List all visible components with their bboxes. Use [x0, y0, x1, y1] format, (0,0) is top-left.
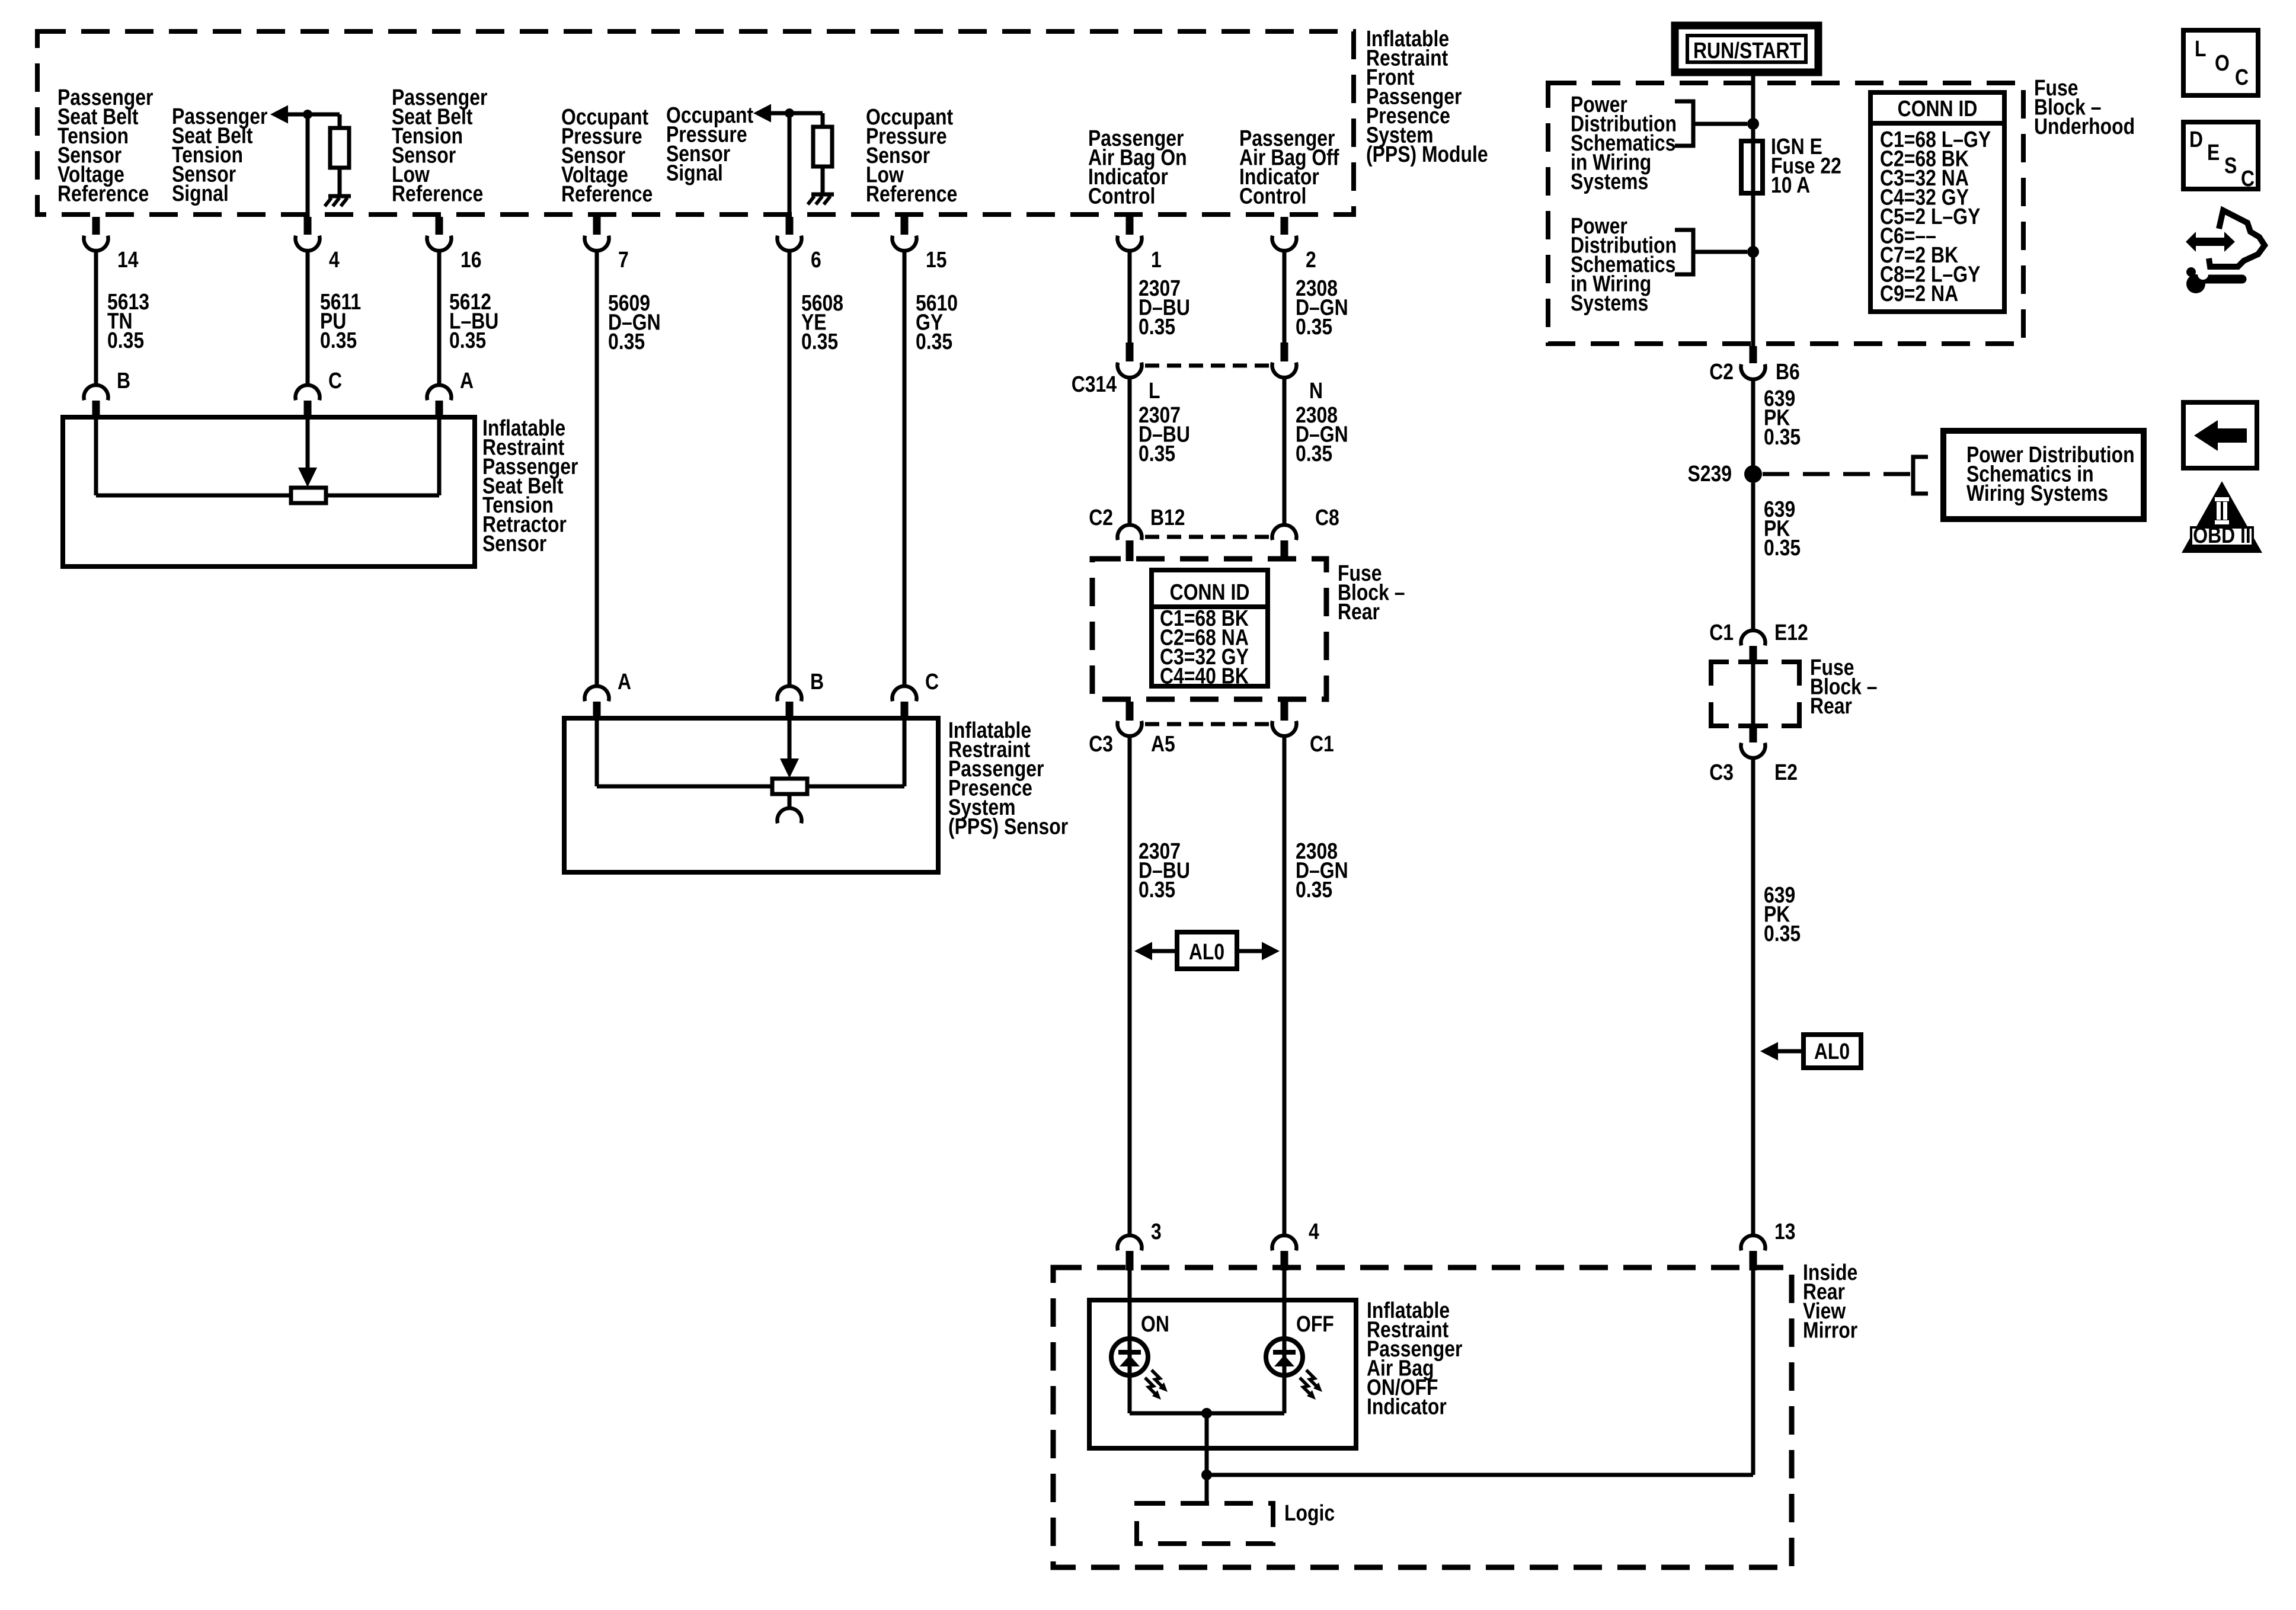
svg-text:4: 4 [1309, 1219, 1319, 1244]
svg-text:L: L [1149, 378, 1160, 403]
wire R1 to ground [338, 168, 342, 196]
module pin 1 connector [1126, 217, 1134, 235]
svg-text:O: O [2215, 50, 2230, 75]
svg-text:0.35: 0.35 [1296, 877, 1332, 902]
OBD II icon [2182, 481, 2262, 553]
connector C1/E12 into fuse block rear (right) [1741, 630, 1766, 645]
retractor wiper arrow wire [306, 417, 310, 468]
svg-text:2: 2 [1306, 247, 1316, 272]
fuse block rear dashed box [1092, 559, 1326, 699]
svg-text:S: S [2224, 153, 2237, 178]
wire junction to resistor R1 [338, 114, 342, 128]
bracket upper (power distribution) [1675, 101, 1693, 146]
svg-text:C1: C1 [1709, 620, 1734, 645]
svg-text:C3: C3 [1709, 760, 1734, 785]
junction dot [303, 110, 312, 119]
module pin 7 connector [593, 217, 601, 235]
svg-text:B6: B6 [1776, 359, 1800, 384]
svg-text:B12: B12 [1150, 505, 1185, 530]
svg-text:CONN ID: CONN ID [1170, 580, 1250, 604]
svg-text:C4=40 BK: C4=40 BK [1160, 664, 1249, 689]
svg-text:16: 16 [461, 247, 482, 272]
PPS internal wire C [903, 718, 907, 786]
wire pin4 to OFF LED [1283, 1270, 1287, 1413]
svg-text:10 A: 10 A [1771, 172, 1810, 197]
connector A into retractor [427, 385, 452, 400]
svg-text:Mirror: Mirror [1803, 1318, 1858, 1343]
svg-text:Reference: Reference [866, 181, 957, 206]
wire signal down from junction (pin 6) [788, 113, 792, 217]
potentiometer element (PPS) [772, 779, 807, 794]
junction dot upper [1747, 118, 1759, 130]
connector C314 left half [1126, 343, 1134, 361]
resistor R2 [813, 127, 832, 167]
svg-text:B: B [117, 368, 130, 393]
wire 5613 TN [94, 251, 98, 384]
fuse block rear mini dashed box [1711, 662, 1729, 686]
svg-text:0.35: 0.35 [1296, 314, 1332, 339]
svg-text:C: C [2235, 65, 2249, 89]
wire through fuse block rear mini [1751, 664, 1755, 728]
svg-text:Systems: Systems [1571, 169, 1648, 194]
svg-text:0.35: 0.35 [608, 329, 645, 354]
AL0 takeout symbol [1177, 932, 1237, 969]
retractor internal wire A [437, 417, 442, 495]
svg-text:Signal: Signal [666, 161, 723, 185]
wire 5611 PU [306, 251, 310, 384]
C314 dashed connector line [1145, 364, 1269, 368]
svg-text:6: 6 [811, 247, 821, 272]
svg-text:D: D [2189, 127, 2203, 152]
connector B into PPS sensor [778, 686, 802, 701]
svg-text:Control: Control [1239, 184, 1306, 209]
svg-text:(PPS) Module: (PPS) Module [1366, 142, 1488, 167]
svg-text:3: 3 [1151, 1219, 1162, 1244]
wire junction to resistor R2 [821, 113, 825, 127]
DESC icon [2183, 122, 2258, 189]
svg-text:Control: Control [1088, 184, 1155, 209]
svg-text:C3: C3 [1089, 731, 1113, 756]
svg-text:13: 13 [1774, 1219, 1796, 1244]
connector C3/E2 out of fuse block rear (right) [1750, 728, 1757, 742]
svg-text:E2: E2 [1774, 760, 1798, 785]
diagnostic icon (arrow, outline, wrench) [2186, 232, 2235, 252]
wire signal down from junction (pin 4) [306, 114, 310, 217]
svg-text:CONN ID: CONN ID [1898, 96, 1978, 121]
wire 2308 pin2 to C314 [1283, 251, 1287, 343]
wire 5610 GY [903, 251, 907, 685]
wire 639 PK mid [1751, 483, 1755, 629]
junction dot lower [1201, 1470, 1212, 1480]
svg-text:0.35: 0.35 [1764, 424, 1801, 449]
connector pin 13 into mirror [1741, 1235, 1766, 1250]
svg-text:OBD II: OBD II [2193, 523, 2250, 548]
module pin 14 connector [92, 217, 100, 235]
splice S239 [1744, 465, 1762, 483]
svg-text:C2: C2 [1089, 505, 1113, 530]
svg-text:L: L [2195, 36, 2206, 61]
wire 2307 C314 to fuse block [1128, 379, 1132, 523]
svg-text:A: A [618, 669, 631, 694]
svg-text:E12: E12 [1774, 620, 1808, 645]
wire pin3 to ON LED [1128, 1270, 1132, 1413]
module pin 4 connector [304, 217, 312, 235]
svg-text:B: B [810, 669, 824, 694]
wire 2307 pin1 to C314 [1128, 251, 1132, 343]
svg-text:Wiring Systems: Wiring Systems [1966, 481, 2108, 505]
svg-text:(PPS) Sensor: (PPS) Sensor [948, 814, 1068, 839]
CONN ID table (rear) [1152, 570, 1268, 686]
wire 2308 C314 to fuse block [1283, 379, 1287, 523]
module pin 16 connector [436, 217, 443, 235]
svg-text:N: N [1309, 378, 1323, 403]
module pin 15 connector [901, 217, 909, 235]
svg-text:OFF: OFF [1296, 1311, 1334, 1336]
wire junction to logic [1205, 1475, 1209, 1503]
connector C2/B6 out of fuse block underhood [1750, 346, 1757, 363]
CONN ID table (underhood) [1870, 92, 2004, 312]
S239 dashed reference line [1763, 472, 1913, 476]
connector C8 into fuse block rear [1272, 525, 1297, 540]
svg-text:C2: C2 [1709, 359, 1734, 384]
svg-text:7: 7 [618, 247, 629, 272]
wire 5612 L-BU [437, 251, 442, 384]
svg-text:0.35: 0.35 [107, 328, 144, 353]
svg-text:RUN/START: RUN/START [1693, 38, 1801, 63]
svg-text:14: 14 [117, 247, 139, 272]
svg-text:Reference: Reference [392, 181, 483, 206]
wire bus to lower junction [1205, 1413, 1209, 1475]
inside rear view mirror dashed box [1053, 1267, 1792, 1567]
svg-text:C9=2 NA: C9=2 NA [1880, 281, 1958, 306]
svg-text:15: 15 [926, 247, 947, 272]
svg-text:0.35: 0.35 [916, 329, 952, 354]
resistor R1 [330, 128, 349, 168]
connector C2/B12 into fuse block rear [1118, 525, 1142, 540]
module pin 6 connector [786, 217, 794, 235]
svg-text:0.35: 0.35 [1764, 921, 1801, 946]
connector C3/A5 out of fuse block rear [1126, 702, 1134, 721]
LED ON [1111, 1339, 1148, 1375]
connector C into PPS sensor [893, 686, 917, 701]
wire junction to pin13 column [1207, 1473, 1753, 1477]
svg-text:AL0: AL0 [1814, 1039, 1850, 1064]
svg-text:Indicator: Indicator [1367, 1394, 1447, 1419]
wire 2307 to indicator [1128, 737, 1132, 1234]
svg-text:0.35: 0.35 [320, 328, 357, 353]
svg-text:C: C [925, 669, 939, 694]
wire 5609 D-GN [595, 251, 599, 685]
svg-text:4: 4 [329, 247, 340, 272]
svg-text:Rear: Rear [1338, 599, 1380, 624]
svg-text:0.35: 0.35 [1296, 441, 1332, 466]
svg-text:C: C [2241, 166, 2255, 191]
LED bus wire [1130, 1411, 1284, 1416]
fuse block underhood dashed box [1548, 83, 2023, 344]
retractor internal wire B [94, 417, 98, 495]
power distribution reference box [1943, 431, 2144, 519]
bracket lower (power distribution) [1675, 230, 1693, 274]
wire pin13 up [1751, 1270, 1755, 1475]
PPS sensor box [564, 718, 938, 872]
svg-text:Sensor: Sensor [482, 531, 546, 556]
wire 5608 YE [788, 251, 792, 685]
svg-text:1: 1 [1151, 247, 1162, 272]
connector A into PPS sensor [585, 686, 609, 701]
LED OFF [1266, 1339, 1303, 1375]
svg-text:C: C [328, 368, 342, 393]
svg-text:S239: S239 [1687, 461, 1732, 486]
connector C314 right half [1281, 343, 1288, 361]
wire RUN/START down [1751, 72, 1755, 346]
svg-text:C8: C8 [1315, 505, 1339, 530]
AL0 takeout (right) [1803, 1035, 1861, 1068]
junction dot bus [1201, 1408, 1212, 1419]
svg-text:Reference: Reference [561, 181, 653, 206]
retractor sensor box [63, 417, 475, 566]
svg-text:Signal: Signal [172, 181, 229, 206]
potentiometer element [291, 488, 326, 503]
ground (occupant pressure sensor) [811, 193, 834, 197]
junction dot lower [1747, 246, 1759, 258]
module pin 2 connector [1281, 217, 1288, 235]
back arrow icon [2183, 402, 2257, 468]
svg-text:ON: ON [1141, 1311, 1169, 1336]
svg-text:0.35: 0.35 [449, 328, 486, 353]
svg-text:Underhood: Underhood [2034, 114, 2135, 139]
logic dashed box [1137, 1503, 1273, 1544]
connector B into retractor [84, 385, 108, 400]
svg-text:0.35: 0.35 [1139, 877, 1175, 902]
wire OFF LED down [1283, 1376, 1287, 1413]
PPS wiper arrow wire [788, 718, 792, 759]
svg-text:C314: C314 [1072, 372, 1117, 396]
PPS module dashed box [37, 31, 1354, 215]
PPS stub wire below potentiometer [788, 794, 792, 807]
svg-text:Reference: Reference [57, 181, 149, 206]
connector pin 3 into mirror [1118, 1235, 1142, 1250]
wire 639 PK lower [1751, 759, 1755, 1234]
svg-text:C1: C1 [1310, 731, 1334, 756]
ground (seat belt tension sensor) [328, 194, 351, 199]
svg-text:0.35: 0.35 [801, 329, 838, 354]
RUN/START power feed box [1675, 25, 1818, 72]
svg-text:Systems: Systems [1571, 290, 1648, 315]
indicator box [1089, 1300, 1356, 1448]
wire 639 PK upper [1751, 380, 1755, 466]
wire ON LED down [1128, 1376, 1132, 1413]
signal arrow left [270, 105, 288, 124]
svg-text:A5: A5 [1151, 731, 1175, 756]
wire 2308 to indicator [1283, 737, 1287, 1234]
svg-text:0.35: 0.35 [1139, 441, 1175, 466]
svg-text:AL0: AL0 [1189, 939, 1224, 964]
fuse IGN E [1741, 141, 1763, 193]
wire R2 to ground [821, 167, 825, 194]
junction dot [785, 108, 794, 118]
connector C into retractor [296, 385, 320, 400]
svg-text:Logic: Logic [1284, 1500, 1335, 1525]
svg-text:E: E [2207, 140, 2220, 165]
svg-text:A: A [460, 368, 474, 393]
svg-text:0.35: 0.35 [1139, 314, 1175, 339]
signal arrow middle [753, 104, 771, 123]
svg-text:Rear: Rear [1810, 693, 1852, 718]
bracket to power distribution box [1913, 457, 1928, 494]
connector pin 4 into mirror [1272, 1235, 1297, 1250]
dashed line at C3/A5/C1 [1145, 722, 1269, 726]
LOC icon [2183, 30, 2258, 95]
dashed line at C2/B12/C8 [1145, 535, 1269, 539]
PPS internal wire A [595, 718, 599, 786]
svg-text:0.35: 0.35 [1764, 535, 1801, 560]
PPS open connector stub [778, 808, 802, 823]
connector C1 out of fuse block rear [1281, 702, 1288, 721]
